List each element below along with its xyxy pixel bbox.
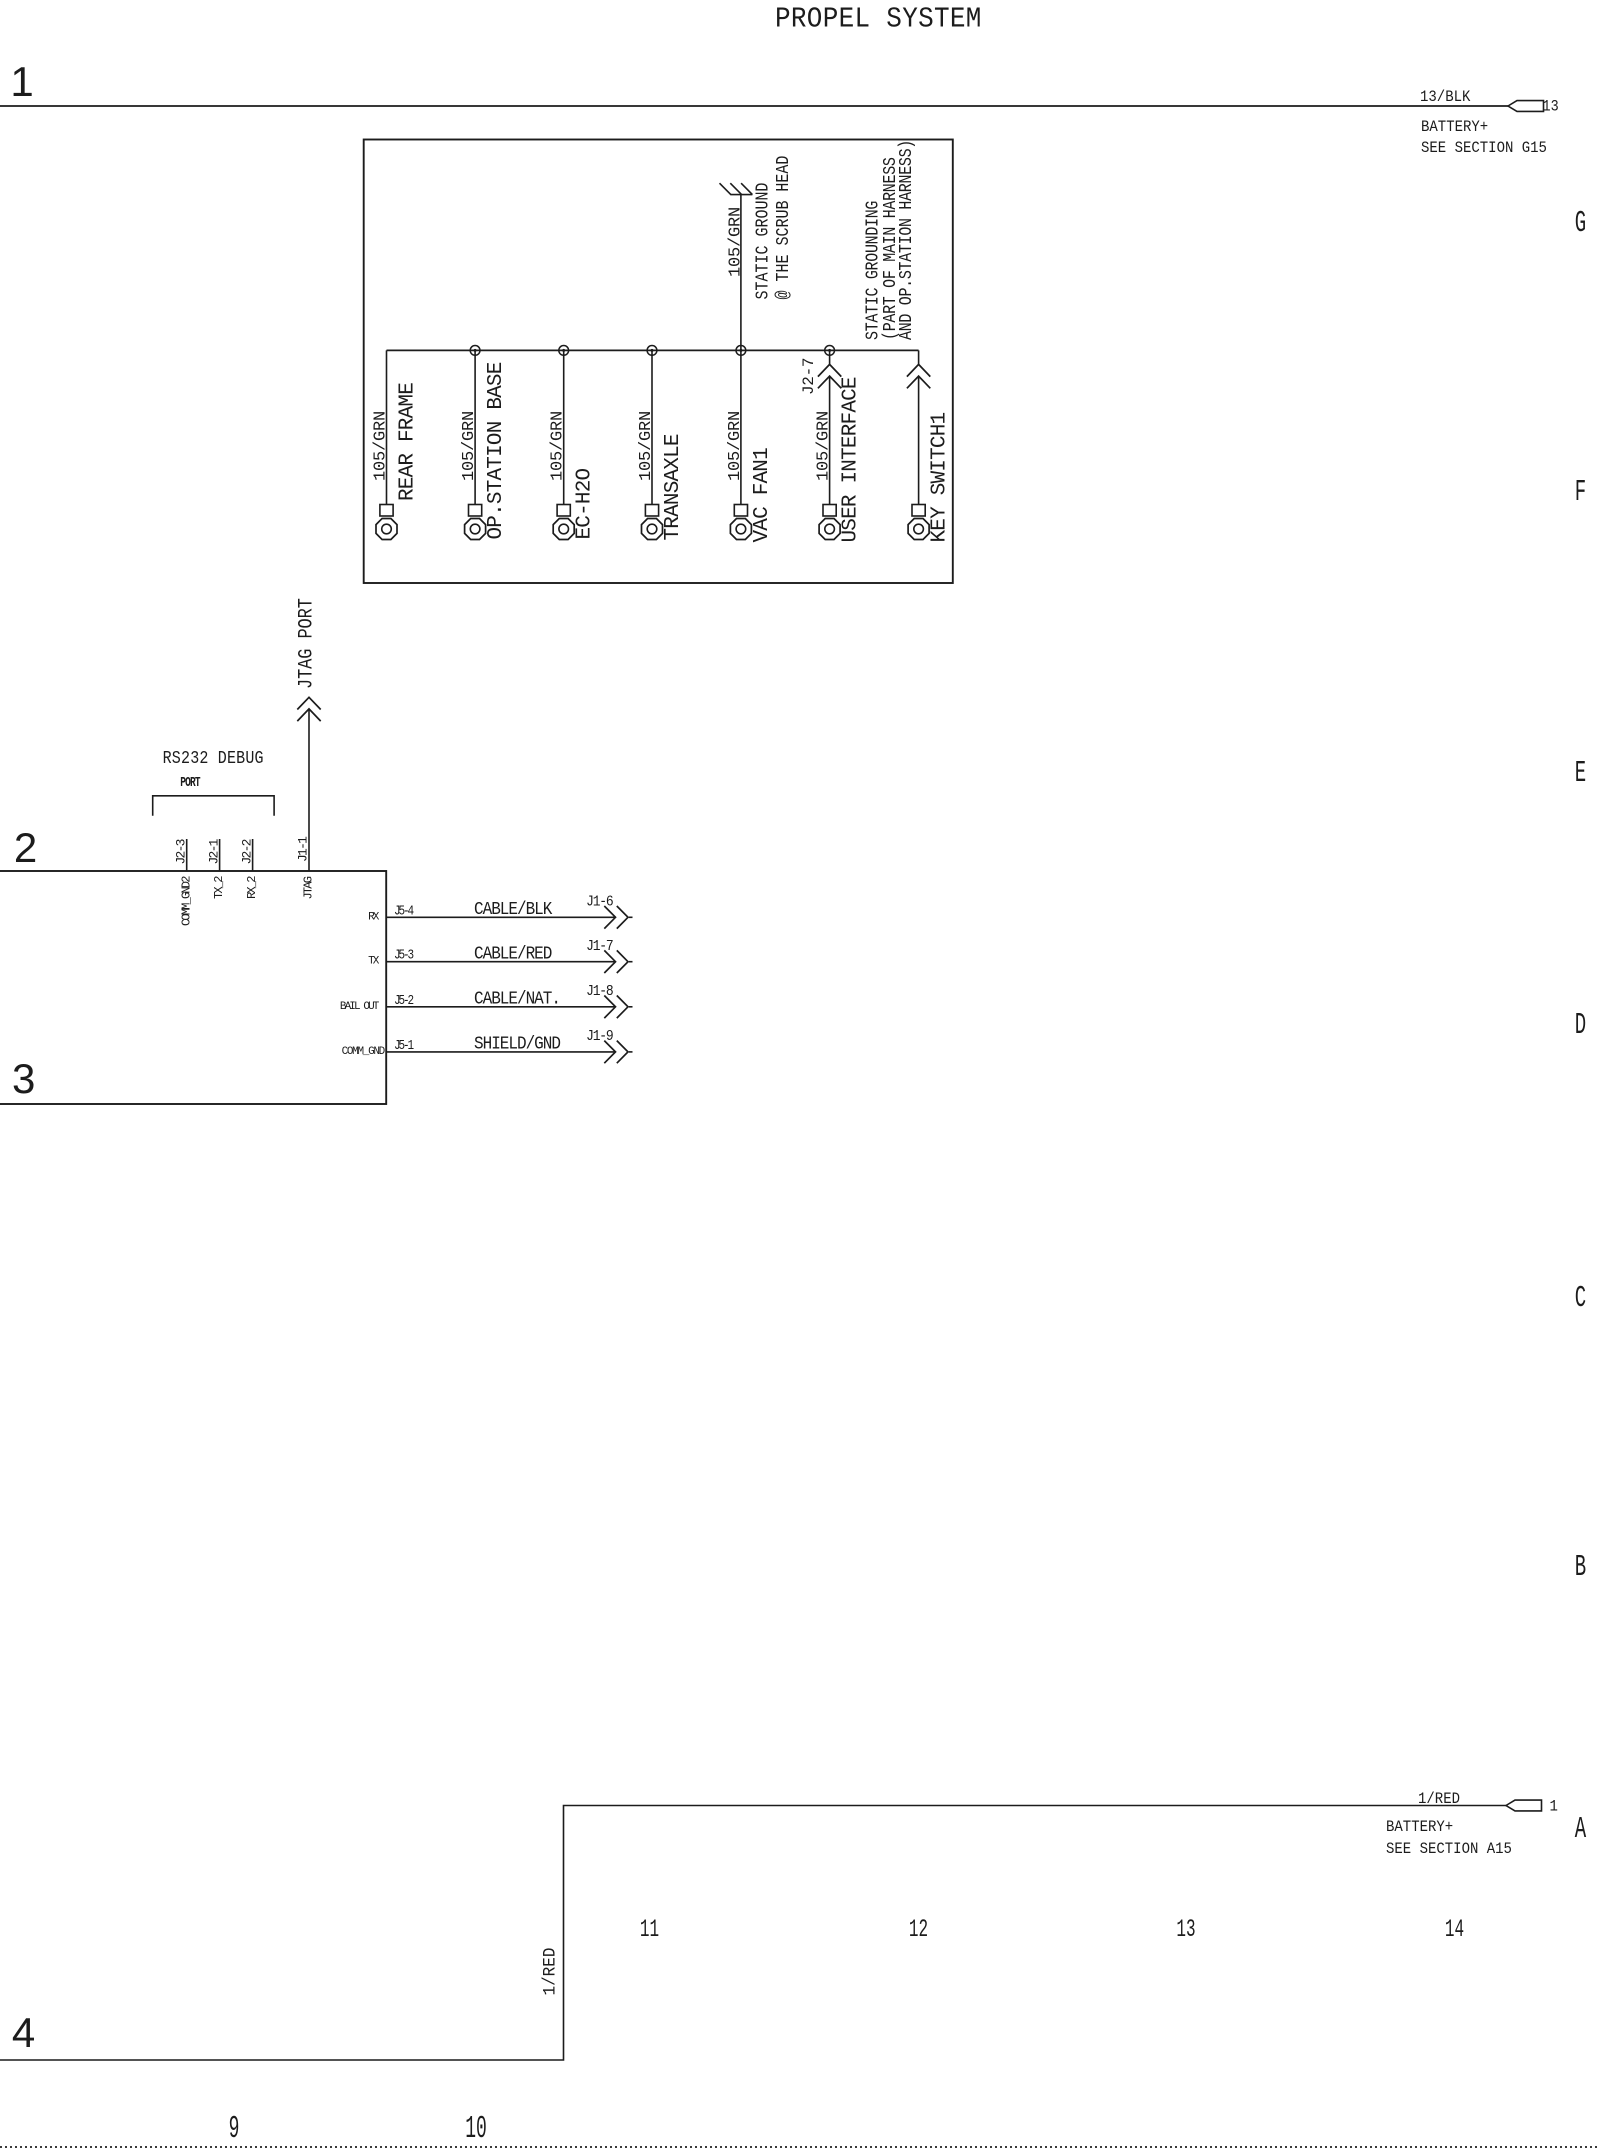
svg-text:REAR FRAME: REAR FRAME <box>397 383 420 501</box>
svg-text:1/RED: 1/RED <box>1418 1789 1460 1808</box>
svg-text:PROPEL SYSTEM: PROPEL SYSTEM <box>775 3 982 35</box>
svg-text:13: 13 <box>1543 99 1559 116</box>
svg-text:13: 13 <box>1176 1916 1195 1945</box>
svg-text:BATTERY+: BATTERY+ <box>1386 1817 1453 1836</box>
svg-text:J2-3: J2-3 <box>173 839 188 864</box>
svg-text:J2-1: J2-1 <box>206 838 221 864</box>
svg-text:J5-1: J5-1 <box>394 1038 414 1053</box>
wire JTAG to pin J1-1 <box>308 709 310 871</box>
static ground symbol (chassis ground) <box>730 194 752 196</box>
svg-text:J2-2: J2-2 <box>239 839 254 864</box>
junction on bus at USER INTERFACE <box>825 346 835 356</box>
svg-text:105/GRN: 105/GRN <box>726 411 745 481</box>
ground lug REAR FRAME <box>380 505 393 517</box>
svg-text:1/RED: 1/RED <box>541 1948 561 1996</box>
svg-text:J5-2: J5-2 <box>394 993 414 1008</box>
svg-text:EC-H2O: EC-H2O <box>574 468 597 539</box>
ground lug KEY SWITCH1 <box>912 505 925 517</box>
svg-text:J1-9: J1-9 <box>586 1030 613 1046</box>
RS232 DEBUG PORT bracket <box>153 796 274 816</box>
wire 105/GRN drop to KEY SWITCH1 <box>918 350 920 364</box>
wire 105/GRN drop to VAC FAN1 <box>740 350 742 504</box>
connector arrow above USER INTERFACE <box>818 364 841 376</box>
pin stub J2-1 <box>219 839 221 871</box>
wire 105/GRN drop to TRANSAXLE <box>651 350 653 504</box>
junction on bus at VAC FAN1 <box>736 346 746 356</box>
svg-text:CABLE/RED: CABLE/RED <box>474 945 552 965</box>
svg-text:JTAG: JTAG <box>302 876 316 899</box>
svg-text:KEY SWITCH1: KEY SWITCH1 <box>929 412 952 542</box>
svg-text:9: 9 <box>229 2111 240 2147</box>
wire CABLE/RED from J5-3 <box>386 961 615 963</box>
junction on bus at EC-H2O <box>559 346 569 356</box>
svg-text:A: A <box>1575 1812 1587 1847</box>
svg-text:J5-4: J5-4 <box>394 903 414 918</box>
svg-text:1: 1 <box>10 58 33 105</box>
svg-text:BATTERY+: BATTERY+ <box>1421 117 1488 136</box>
wire CABLE/NAT. from J5-2 <box>386 1006 615 1008</box>
svg-text:13/BLK: 13/BLK <box>1420 87 1471 106</box>
svg-text:4: 4 <box>12 2009 35 2056</box>
svg-text:10: 10 <box>465 2111 487 2147</box>
svg-text:105/GRN: 105/GRN <box>460 411 479 481</box>
svg-text:J1-7: J1-7 <box>586 939 613 955</box>
svg-text:105/GRN: 105/GRN <box>372 411 391 481</box>
connector arrow above KEY SWITCH1 <box>907 364 930 376</box>
svg-text:@ THE SCRUB HEAD: @ THE SCRUB HEAD <box>774 156 795 300</box>
svg-text:F: F <box>1575 475 1586 510</box>
svg-text:PORT: PORT <box>180 774 200 790</box>
svg-text:1: 1 <box>1550 1797 1558 1816</box>
wire 105/GRN static ground to bus <box>740 195 742 351</box>
svg-text:RX_2: RX_2 <box>245 876 259 899</box>
junction on bus at TRANSAXLE <box>647 346 657 356</box>
svg-text:J1-1: J1-1 <box>296 836 311 862</box>
svg-text:TX_2: TX_2 <box>212 876 226 899</box>
svg-text:G: G <box>1575 206 1586 241</box>
off-page connector 1 (BATTERY+ SEE SECTION A15) <box>1506 1800 1542 1811</box>
wire 1/RED (BATTERY+) <box>0 1806 1506 2061</box>
svg-text:2: 2 <box>14 824 37 871</box>
connector arrow J1-8 <box>604 996 615 1019</box>
svg-text:JTAG PORT: JTAG PORT <box>295 598 318 689</box>
wire 105/GRN drop to USER INTERFACE <box>829 350 831 364</box>
svg-text:USER INTERFACE: USER INTERFACE <box>840 377 863 542</box>
svg-text:B: B <box>1575 1550 1586 1585</box>
ground lug USER INTERFACE <box>823 505 836 517</box>
svg-text:VAC FAN1: VAC FAN1 <box>751 448 774 543</box>
wire 13/BLK (BATTERY+) zone divider 1 <box>0 105 1508 107</box>
svg-text:105/GRN: 105/GRN <box>726 207 745 277</box>
controller module box <box>0 871 386 1104</box>
svg-text:D: D <box>1575 1008 1586 1043</box>
wire 105/GRN drop to REAR FRAME <box>386 350 388 504</box>
svg-text:105/GRN: 105/GRN <box>549 411 568 481</box>
svg-text:COMM_GND2: COMM_GND2 <box>179 876 193 926</box>
svg-text:SEE SECTION A15: SEE SECTION A15 <box>1386 1839 1512 1858</box>
wire CABLE/BLK from J5-4 <box>386 916 615 918</box>
connector arrow J1-6 <box>604 906 615 929</box>
svg-text:3: 3 <box>12 1055 35 1102</box>
svg-text:OP.STATION BASE: OP.STATION BASE <box>485 362 508 539</box>
svg-text:RS232 DEBUG: RS232 DEBUG <box>163 749 264 770</box>
JTAG port connector arrow <box>297 697 320 709</box>
svg-text:SEE SECTION G15: SEE SECTION G15 <box>1421 138 1547 157</box>
pin stub J2-2 <box>252 839 254 871</box>
svg-text:105/GRN: 105/GRN <box>815 411 834 481</box>
svg-text:11: 11 <box>640 1916 659 1945</box>
svg-text:105/GRN: 105/GRN <box>637 411 656 481</box>
svg-text:J5-3: J5-3 <box>394 948 414 963</box>
ground lug VAC FAN1 <box>734 505 747 517</box>
connector arrow J1-9 <box>604 1041 615 1064</box>
off-page connector 13 (BATTERY+ SEE SECTION G15) <box>1508 101 1544 112</box>
wire 105/GRN drop to OP.STATION BASE <box>474 350 476 504</box>
pin stub J2-3 <box>186 839 188 871</box>
svg-text:J2-7: J2-7 <box>800 358 818 395</box>
svg-text:COMM_GND: COMM_GND <box>342 1046 386 1058</box>
wire SHIELD/GND from J5-1 <box>386 1051 615 1053</box>
svg-text:BAIL OUT: BAIL OUT <box>340 1001 380 1013</box>
svg-text:TRANSAXLE: TRANSAXLE <box>662 434 685 540</box>
svg-text:14: 14 <box>1445 1916 1464 1945</box>
svg-text:J1-6: J1-6 <box>586 895 613 911</box>
svg-text:AND OP.STATION HARNESS): AND OP.STATION HARNESS) <box>897 140 918 340</box>
svg-text:STATIC GROUND: STATIC GROUND <box>753 183 774 300</box>
svg-text:CABLE/BLK: CABLE/BLK <box>474 900 553 920</box>
svg-text:CABLE/NAT.: CABLE/NAT. <box>474 990 560 1010</box>
ground lug TRANSAXLE <box>645 505 658 517</box>
svg-text:E: E <box>1575 756 1586 791</box>
svg-text:J1-8: J1-8 <box>586 985 613 1001</box>
junction on bus at OP.STATION BASE <box>470 346 480 356</box>
svg-text:C: C <box>1575 1281 1586 1316</box>
connector arrow J1-7 <box>604 950 615 973</box>
ground lug OP.STATION BASE <box>469 505 482 517</box>
ground lug EC-H2O <box>557 505 570 517</box>
svg-text:12: 12 <box>909 1916 928 1945</box>
svg-text:SHIELD/GND: SHIELD/GND <box>474 1035 561 1055</box>
ground bus wire <box>387 349 919 351</box>
wire 105/GRN drop to EC-H2O <box>563 350 565 504</box>
static grounding block outline <box>364 140 953 584</box>
